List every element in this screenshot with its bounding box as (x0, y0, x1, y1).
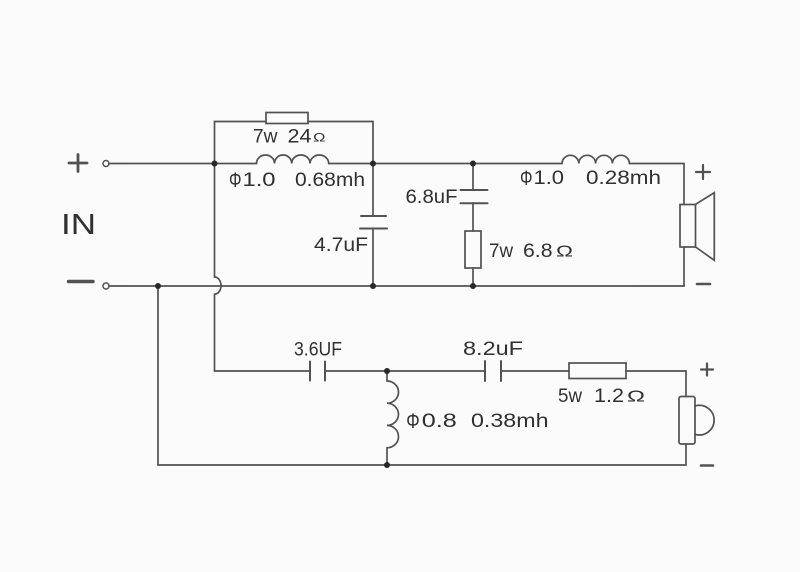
capacitor C2 6.8uF top lead (472, 164, 474, 191)
input terminal plus (103, 161, 109, 167)
resistor R1 bypass loop left leg (215, 122, 267, 164)
svg-text:Ω: Ω (556, 244, 573, 261)
resistor R1 bypass loop right leg (308, 122, 373, 164)
woofer cone (696, 193, 715, 261)
wire: L2 to woofer rail (629, 163, 684, 165)
wire: woofer rail top (683, 164, 685, 205)
tweeter dome (695, 405, 714, 435)
wire: C4 to resistor R3 (501, 370, 569, 372)
svg-text:0.68mh: 0.68mh (295, 170, 365, 191)
capacitor C1 bottom lead (372, 229, 374, 287)
tweeter minus symbol (701, 464, 713, 467)
svg-text:7w: 7w (253, 127, 278, 148)
svg-text:5w: 5w (558, 386, 582, 407)
resistor R1 box 7w 24ohm (266, 113, 308, 124)
input terminal minus (103, 283, 109, 289)
wire: C3 to node D (325, 370, 387, 372)
woofer plus symbol (696, 165, 710, 179)
wire: node A vertical with crossover hop (215, 164, 222, 372)
node G (R2 bottom) (470, 283, 476, 289)
svg-text:1.2: 1.2 (594, 386, 624, 407)
label phi1.0 0.68mh (229, 169, 365, 192)
wire: tweeter rail bottom (685, 444, 687, 465)
inductor L1 humps (257, 155, 329, 164)
node D (L3 top) (384, 368, 390, 374)
capacitor C3 3.6UF plates (309, 362, 311, 381)
capacitor C4 8.2uF plates (484, 361, 486, 381)
node F (C1 bottom) (370, 283, 376, 289)
svg-text:4.7uF: 4.7uF (314, 235, 368, 256)
svg-text:6.8uF: 6.8uF (406, 187, 458, 208)
capacitor C1 4.7uF top lead (372, 164, 374, 217)
svg-text:1.0: 1.0 (534, 168, 565, 189)
svg-text:0.38mh: 0.38mh (471, 411, 549, 432)
tweeter plus symbol (701, 364, 713, 376)
capacitor C1 plates (361, 215, 386, 217)
wire: L1 to node C (329, 163, 473, 165)
wire: bottom return rail (158, 286, 686, 465)
resistor R2 box 7w 6.8ohm (465, 231, 481, 268)
wire: bottom rail (109, 285, 684, 287)
input minus symbol (69, 280, 94, 283)
node A (212, 161, 218, 167)
inductor L2 humps (562, 155, 629, 163)
inductor L3 vertical humps (387, 381, 399, 448)
wire: to capacitor C3 (215, 370, 311, 372)
input plus symbol (69, 155, 87, 172)
label 7w 6.8ohm (489, 241, 573, 262)
capacitor C2 plates (461, 189, 488, 191)
svg-text:Ω: Ω (313, 131, 326, 145)
svg-text:7w: 7w (489, 241, 513, 262)
node C (branch top) (470, 161, 476, 167)
label phi0.8 0.38mh (406, 409, 548, 433)
woofer rect (680, 205, 696, 248)
svg-text:Φ: Φ (229, 169, 242, 192)
node B (L1 right) (370, 161, 376, 167)
svg-text:0.28mh: 0.28mh (586, 168, 661, 189)
wire: woofer rail bottom (683, 247, 685, 286)
label 7w 24ohm (253, 127, 326, 148)
svg-text:24: 24 (288, 127, 312, 148)
svg-text:0.8: 0.8 (422, 411, 457, 432)
inductor L3 bottom lead (386, 448, 388, 465)
inductor L3 top lead (386, 371, 388, 381)
svg-text:6.8: 6.8 (523, 241, 553, 262)
svg-text:IN: IN (61, 209, 96, 241)
label 5w 1.2ohm (558, 386, 645, 407)
svg-text:8.2uF: 8.2uF (463, 339, 523, 360)
resistor R2 top lead (472, 203, 474, 231)
wire: plus input to node A (109, 163, 257, 165)
woofer minus symbol (697, 283, 710, 286)
wire: R3 to tweeter rail (626, 370, 686, 372)
node H (L3 bottom) (384, 462, 390, 468)
svg-text:Φ: Φ (520, 167, 533, 190)
wire: node D to capacitor C4 (387, 370, 485, 372)
svg-text:Φ: Φ (406, 409, 419, 433)
svg-text:Ω: Ω (627, 389, 645, 406)
svg-text:3.6UF: 3.6UF (294, 340, 342, 361)
wire: tweeter rail top (685, 371, 687, 397)
svg-text:1.0: 1.0 (243, 170, 276, 191)
resistor R3 box 5w 1.2ohm (569, 363, 626, 379)
node E (bottom rail left) (155, 283, 161, 289)
wire: node C to L2 (473, 163, 562, 165)
label phi1.0 0.28mh (520, 167, 661, 190)
tweeter rect (679, 397, 695, 445)
resistor R2 bottom lead (472, 268, 474, 286)
